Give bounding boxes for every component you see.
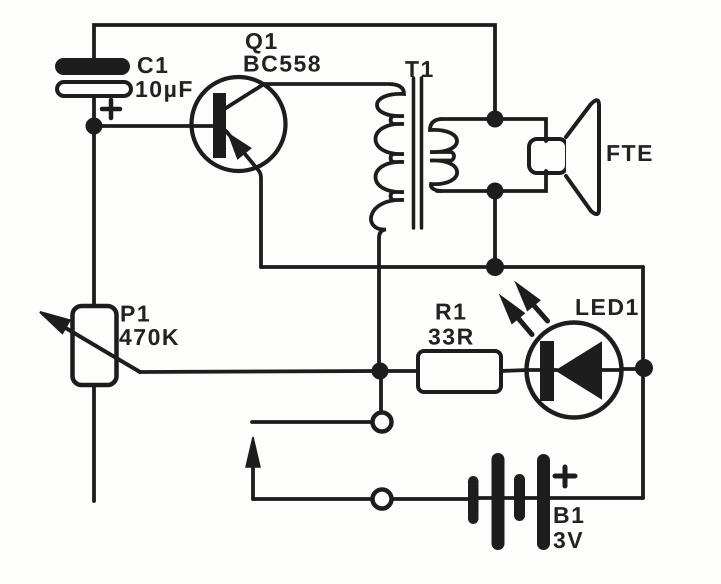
label R1 33R — [428, 299, 475, 350]
svg-text:470K: 470K — [119, 324, 180, 350]
wire node B to R1 — [380, 369, 418, 373]
speaker FTE — [529, 100, 599, 214]
svg-text:R1: R1 — [435, 299, 467, 325]
potentiometer P1 — [40, 306, 140, 385]
wire switch to battery — [392, 497, 468, 501]
wire wiper to node B — [140, 371, 377, 372]
node emitter/right-rail junction — [486, 258, 504, 276]
switch terminal upper — [373, 413, 392, 432]
label FTE — [606, 140, 654, 166]
transformer T1 primary winding — [371, 84, 404, 362]
wire R1 to LED1 — [501, 370, 527, 371]
wire right rail down — [641, 267, 645, 498]
capacitor C1 — [55, 58, 131, 120]
wire LED1 to right rail — [621, 367, 643, 371]
wire base from node A to Q1 — [94, 124, 214, 128]
svg-text:BC558: BC558 — [243, 51, 322, 77]
label T1 — [405, 56, 435, 82]
wire secondary bottom to speaker — [437, 171, 546, 191]
svg-text:10µF: 10µF — [135, 76, 194, 102]
svg-text:3V: 3V — [553, 527, 584, 553]
transformer T1 secondary winding — [430, 119, 457, 191]
switch terminal lower — [373, 490, 392, 509]
svg-text:LED1: LED1 — [575, 294, 640, 320]
label P1 470K — [119, 301, 180, 351]
wire top rail from C1 up, across, down to speaker node — [94, 25, 495, 112]
node B junction wiper/T1/R1/switch — [372, 363, 389, 380]
resistor R1 — [418, 351, 501, 392]
wire battery to right rail — [550, 496, 643, 500]
label C1 10uF — [135, 52, 194, 102]
label Q1 BC558 — [243, 28, 322, 77]
svg-text:B1: B1 — [553, 502, 585, 528]
wire P1 lower lead — [92, 385, 96, 501]
node speaker top junction — [487, 111, 504, 128]
wire switch open lead — [252, 420, 372, 424]
switch arrow — [246, 437, 260, 499]
wire bottom left to switch terminal lower — [253, 497, 372, 501]
LED1 — [501, 284, 622, 418]
node LED1/right-rail junction — [635, 359, 653, 377]
wire node B down to switch terminal — [379, 371, 383, 411]
svg-text:P1: P1 — [120, 301, 151, 327]
wire left rail node A to P1 — [92, 132, 96, 306]
wire secondary top to speaker — [441, 119, 546, 141]
wire emitter rail across to right rail — [261, 265, 643, 269]
battery B1 — [468, 453, 575, 550]
label LED1 — [575, 294, 640, 320]
node speaker bottom junction — [487, 183, 504, 200]
svg-text:FTE: FTE — [606, 140, 654, 166]
transistor Q1 BC558 PNP — [192, 77, 286, 267]
label B1 3V — [553, 502, 585, 553]
transformer T1 core — [414, 78, 422, 228]
svg-text:33R: 33R — [428, 324, 475, 350]
svg-text:C1: C1 — [137, 52, 169, 78]
svg-text:T1: T1 — [405, 56, 435, 82]
node A junction C1/base/P1 — [86, 118, 103, 135]
wire collector to T1 primary top — [264, 82, 386, 86]
wire node to emitter rail — [493, 191, 497, 267]
